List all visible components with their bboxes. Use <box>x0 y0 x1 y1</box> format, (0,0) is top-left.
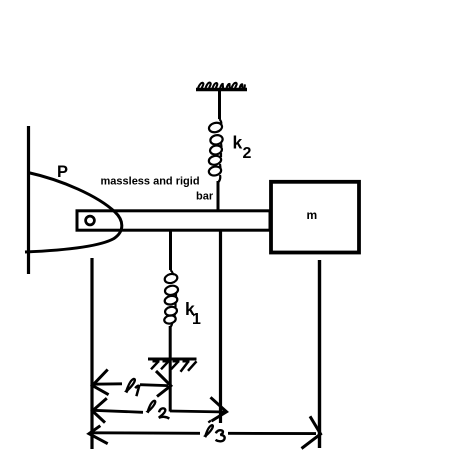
mass extension line <box>318 260 321 448</box>
svg-text:k: k <box>233 133 243 153</box>
ground <box>148 358 197 361</box>
l3 left arrowhead <box>89 426 108 444</box>
pivot pin <box>86 216 95 225</box>
dimension l3 line <box>93 431 316 435</box>
l1 right arrowhead <box>156 371 171 397</box>
l1 left arrowhead <box>92 370 108 395</box>
label l1 <box>126 379 135 392</box>
svg-text:P: P <box>57 163 68 181</box>
pivot support bracket (curve) <box>25 173 122 253</box>
k2 top link <box>218 90 221 119</box>
k2 extension line below bar <box>219 232 222 424</box>
spring k1 <box>163 270 178 327</box>
l2 left arrowhead <box>92 398 106 422</box>
svg-text:m: m <box>307 208 318 222</box>
ground hatching <box>151 361 197 372</box>
svg-text:1: 1 <box>192 311 201 328</box>
mass m box <box>271 182 359 253</box>
k1 lower link and extension to l2 line <box>169 326 172 412</box>
dimension l2 line <box>93 410 226 412</box>
left dimension reference line <box>90 258 93 449</box>
dimension l1 line <box>93 384 168 386</box>
svg-text:massless and rigid: massless and rigid <box>101 175 200 187</box>
label l2 <box>148 401 156 413</box>
svg-text:2: 2 <box>243 145 252 162</box>
ceiling hatching <box>198 83 245 89</box>
ceiling <box>196 88 247 91</box>
k1 top link <box>169 231 172 270</box>
massless rigid bar <box>77 211 270 230</box>
label l3 <box>208 421 211 423</box>
wall <box>27 126 30 274</box>
svg-text:bar: bar <box>196 190 214 202</box>
l3 right arrowhead <box>302 416 321 448</box>
spring k2 <box>208 119 224 182</box>
k2 bottom link <box>217 181 220 210</box>
l2 right arrowhead <box>211 397 227 421</box>
